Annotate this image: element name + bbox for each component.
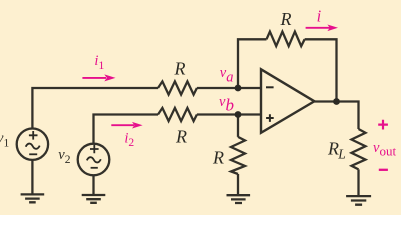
op-amp plus sign: [266, 114, 274, 122]
resistor R feedback: [267, 32, 305, 46]
source v2 minus sign: [91, 167, 98, 169]
op-amp minus sign: [266, 86, 274, 88]
wire node b rail to op-amp plus input: [197, 113, 261, 115]
wire RL bottom stem: [357, 169, 359, 196]
svg-text:i1: i1: [94, 53, 104, 72]
wire op-amp output to RL corner: [314, 102, 358, 130]
ground mid: [227, 195, 251, 203]
svg-text:R: R: [175, 126, 187, 146]
label vout plus sign: [378, 120, 388, 130]
op-amp U1: [261, 69, 314, 133]
wire node a up to feedback resistor: [238, 39, 267, 88]
resistor R to ground: [231, 137, 245, 174]
svg-text:va: va: [220, 65, 234, 85]
svg-text:i2: i2: [124, 130, 134, 149]
wire v1 bottom stem: [31, 160, 33, 195]
source v2 sine symbol: [87, 157, 101, 162]
ground RL: [346, 196, 371, 205]
wire feedback right side down to output node: [305, 39, 337, 101]
source v2 plus sign: [90, 145, 99, 154]
wire mid resistor bottom stem: [237, 174, 239, 195]
svg-text:v2: v2: [58, 147, 70, 166]
source v1 plus sign: [29, 131, 38, 140]
svg-text:R: R: [174, 59, 186, 79]
resistor RL: [352, 129, 366, 169]
current arrow i1: [82, 74, 115, 81]
svg-text:v1: v1: [0, 131, 9, 150]
resistor R2: [158, 108, 197, 121]
ground v1: [21, 194, 45, 202]
svg-text:vout: vout: [373, 140, 396, 159]
node b: [235, 111, 242, 118]
svg-text:R: R: [280, 9, 292, 29]
node a: [235, 85, 242, 92]
svg-text:vb: vb: [219, 94, 234, 114]
source v1 circle: [17, 129, 48, 160]
svg-text:R: R: [212, 148, 224, 168]
wire node a rail to op-amp minus input: [197, 87, 261, 89]
wire node b down stem: [237, 115, 239, 137]
wire v1 top stem and rail to R1: [32, 88, 158, 129]
svg-text:i: i: [317, 6, 322, 25]
label vout minus sign: [379, 169, 388, 171]
current arrow i2: [111, 122, 142, 129]
wire v2 bottom stem: [92, 175, 94, 195]
node output: [333, 98, 340, 105]
svg-text:RL: RL: [327, 138, 346, 161]
source v1 minus sign: [29, 153, 37, 155]
source v2 circle: [78, 144, 110, 176]
source v1 sine symbol: [26, 144, 40, 149]
wire v2 top stem and rail to R2: [94, 115, 159, 144]
resistor R1: [158, 81, 197, 94]
current arrow i: [306, 25, 338, 32]
ground v2: [82, 195, 106, 203]
